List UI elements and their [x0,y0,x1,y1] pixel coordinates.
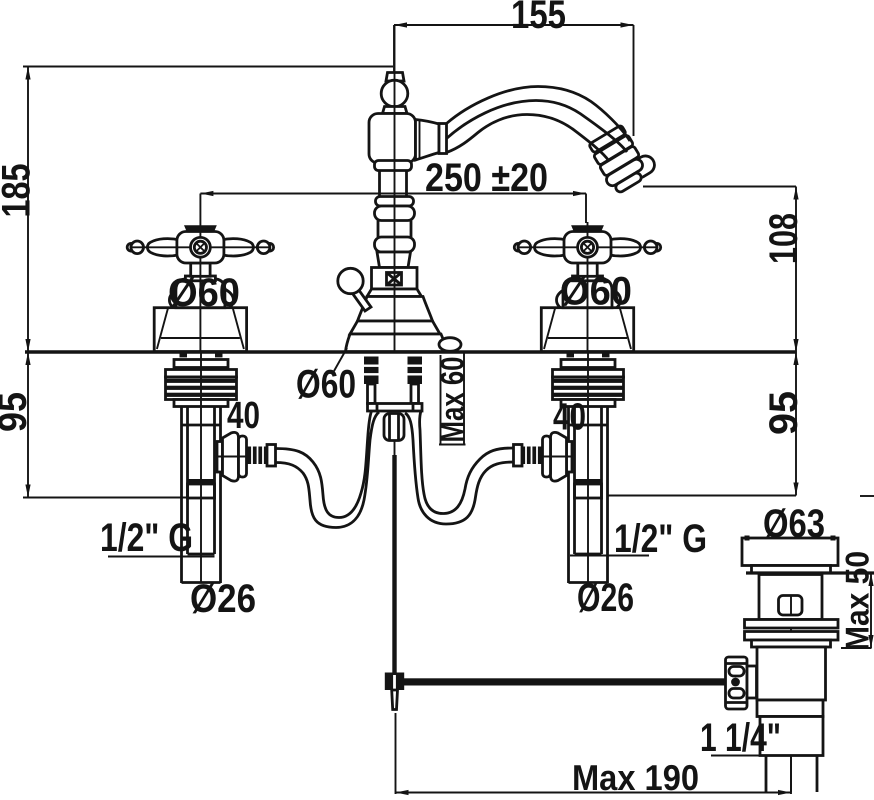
aerator band 2 [593,135,633,166]
drain ring band C [752,640,831,647]
left flexible hose [276,410,380,528]
svg-text:40: 40 [227,395,260,437]
svg-text:185: 185 [0,164,39,218]
dimension 155 top [394,0,634,136]
column collar A [375,161,412,171]
drain centerline [790,545,792,792]
svg-text:95: 95 [762,391,806,435]
dimension 108 right [643,187,806,353]
right shank [514,352,624,583]
svg-text:Max 190: Max 190 [572,757,699,798]
center mounting stud right [408,357,423,404]
horizontal drain rod [398,678,731,685]
drain neck [759,575,822,620]
drain mid section [757,700,823,717]
pop-up lever stem [353,290,372,312]
spout ball finial [381,80,408,107]
spout tube curve bottom line [447,115,610,162]
drain lip [752,566,831,574]
drain pop-up assembly [726,536,874,793]
dimension Max 60 box [434,352,471,445]
svg-text:108: 108 [762,213,806,264]
svg-text:Ø63: Ø63 [763,502,825,546]
spout centerline [394,25,396,352]
svg-text:95: 95 [0,392,35,432]
svg-text:40: 40 [553,397,586,439]
svg-text:Ø60: Ø60 [560,270,632,314]
center mounting stud left [364,357,379,404]
svg-text:Max 50: Max 50 [839,551,874,651]
pop-up lever ball [338,268,363,293]
column torus B [376,197,414,207]
spout body [369,114,416,164]
spout neck [383,107,408,114]
svg-text:250 ±20: 250 ±20 [425,156,548,200]
screw block with X [372,268,418,290]
knurled rod nut [726,657,748,709]
column torus D [375,237,415,252]
drain clip window [779,596,803,616]
deck line [25,350,796,354]
label 1 1/4" with leader [711,755,824,757]
svg-text:Ø26: Ø26 [190,577,256,621]
pop-up rod guide block [384,414,404,441]
column collar E [377,252,411,268]
pop-up vertical rod [392,441,396,676]
svg-text:1/2" G: 1/2" G [614,517,707,561]
svg-text:Ø26: Ø26 [577,576,634,620]
svg-text:1 1/4": 1 1/4" [700,716,781,760]
dimension Max 50 [839,551,874,651]
svg-text:Ø60: Ø60 [296,363,356,407]
aerator tip cap [614,171,643,193]
column straight [377,221,380,238]
rod connector joint [385,673,404,710]
spout assembly U-center [338,25,658,352]
dimension 95 right [609,352,874,496]
dimension 185 left [0,67,393,353]
drain ring band A [745,620,839,629]
bell base band 1 [367,289,422,297]
spout tube curve middle line [447,101,628,153]
spout horn outlet [416,120,440,161]
label 1/2" G left with leader [108,556,215,558]
left handle [127,222,273,352]
svg-text:Max 60: Max 60 [434,357,471,443]
drain ring band B [745,632,839,641]
right flexible hose [405,411,514,524]
bell base band 3 [350,321,440,334]
dim 250 line across column [366,193,424,195]
drain lower tube [765,756,768,793]
right handle [514,222,660,352]
spout tube curve top line [447,87,631,142]
bell base skirt [346,334,447,352]
manifold plate [368,404,423,412]
dimension 95 left [0,352,187,498]
label 1/2" G right with leader [570,555,649,557]
dimension Max 190 bottom [396,713,792,798]
aerator band 3 [599,146,639,177]
left shank [166,352,276,583]
svg-text:1/2" G: 1/2" G [100,516,193,560]
svg-text:Ø60: Ø60 [168,271,240,315]
deck oval right of bell [439,338,461,352]
drain tailpiece [760,717,823,756]
aerator band 1 [589,125,627,153]
dimension 250 +-20 [200,156,586,223]
spout top cap [386,73,404,82]
column waist [378,171,381,197]
label O60 center with leader [334,348,347,371]
aerator tip band [604,157,644,188]
column torus C [375,206,415,221]
drain flange [742,538,838,566]
svg-text:155: 155 [511,0,566,37]
drain body [757,647,826,700]
bell base band 2 [358,297,433,322]
aerator end lobe [626,153,658,182]
